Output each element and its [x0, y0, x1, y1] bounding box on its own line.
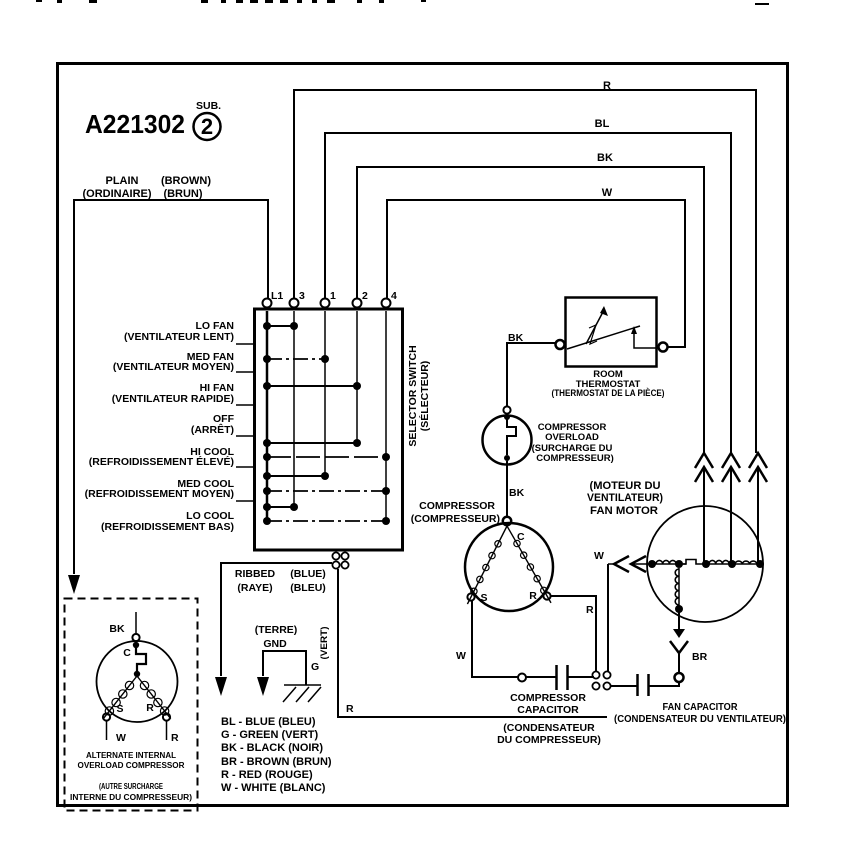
svg-text:W: W — [116, 732, 126, 744]
svg-text:(VENTILATEUR RAPIDE): (VENTILATEUR RAPIDE) — [112, 393, 234, 405]
svg-text:R: R — [529, 590, 537, 602]
svg-text:1: 1 — [330, 290, 336, 302]
svg-text:(CONDENSATEUR: (CONDENSATEUR — [503, 722, 595, 734]
svg-text:SUB.: SUB. — [196, 100, 221, 112]
svg-text:4: 4 — [391, 290, 397, 302]
svg-text:S: S — [116, 703, 123, 715]
svg-text:FAN CAPACITOR: FAN CAPACITOR — [663, 701, 738, 713]
svg-text:3: 3 — [299, 290, 305, 302]
svg-text:(ORDINAIRE): (ORDINAIRE) — [82, 188, 151, 200]
svg-text:(BRUN): (BRUN) — [163, 188, 202, 200]
svg-text:PLAIN: PLAIN — [106, 175, 139, 187]
svg-text:(THERMOSTAT DE LA PIÈCE): (THERMOSTAT DE LA PIÈCE) — [552, 388, 665, 399]
svg-text:(SÉLECTEUR): (SÉLECTEUR) — [418, 361, 431, 432]
svg-text:R - RED (ROUGE): R - RED (ROUGE) — [221, 769, 313, 781]
svg-text:BK: BK — [109, 623, 125, 635]
svg-text:(BROWN): (BROWN) — [161, 175, 211, 187]
svg-text:(TERRE): (TERRE) — [255, 624, 298, 636]
svg-text:W: W — [602, 187, 613, 199]
svg-text:G - GREEN (VERT): G - GREEN (VERT) — [221, 729, 319, 741]
svg-text:R: R — [171, 732, 179, 744]
svg-text:VENTILATEUR): VENTILATEUR) — [587, 492, 663, 504]
svg-text:BK - BLACK (NOIR): BK - BLACK (NOIR) — [221, 742, 323, 754]
svg-text:2: 2 — [362, 290, 368, 302]
svg-text:COMPRESSOR: COMPRESSOR — [419, 500, 495, 512]
svg-text:R: R — [603, 80, 611, 92]
svg-text:BR: BR — [692, 651, 708, 663]
svg-text:ALTERNATE INTERNAL: ALTERNATE INTERNAL — [86, 750, 177, 760]
svg-text:G: G — [311, 661, 319, 673]
svg-text:R: R — [586, 604, 594, 616]
svg-text:W: W — [594, 550, 604, 562]
svg-text:2: 2 — [201, 114, 213, 139]
svg-text:(BLUE): (BLUE) — [290, 568, 326, 580]
svg-text:COMPRESSEUR): COMPRESSEUR) — [536, 453, 614, 464]
svg-text:DU COMPRESSEUR): DU COMPRESSEUR) — [497, 734, 601, 746]
svg-text:BR - BROWN (BRUN): BR - BROWN (BRUN) — [221, 756, 332, 768]
svg-text:C: C — [123, 647, 131, 659]
svg-text:(VERT): (VERT) — [319, 627, 330, 660]
svg-text:BL - BLUE (BLEU): BL - BLUE (BLEU) — [221, 716, 316, 728]
svg-text:R: R — [146, 702, 154, 714]
svg-text:(REFROIDISSEMENT BAS): (REFROIDISSEMENT BAS) — [101, 521, 234, 533]
svg-text:(BLEU): (BLEU) — [290, 582, 326, 594]
svg-text:(MOTEUR DU: (MOTEUR DU — [590, 480, 661, 492]
svg-text:(RAYE): (RAYE) — [237, 582, 272, 594]
svg-text:BK: BK — [509, 487, 525, 499]
svg-text:OVERLOAD: OVERLOAD — [545, 432, 599, 443]
svg-text:(ARRÊT): (ARRÊT) — [191, 423, 234, 436]
svg-text:W - WHITE (BLANC): W - WHITE (BLANC) — [221, 782, 326, 794]
svg-text:(REFROIDISSEMENT ÉLEVÉ): (REFROIDISSEMENT ÉLEVÉ) — [89, 455, 234, 468]
svg-text:INTERNE DU COMPRESSEUR): INTERNE DU COMPRESSEUR) — [70, 792, 192, 802]
svg-text:R: R — [346, 703, 354, 715]
svg-text:S: S — [480, 592, 487, 604]
svg-text:OVERLOAD COMPRESSOR: OVERLOAD COMPRESSOR — [78, 760, 186, 770]
svg-text:COMPRESSOR: COMPRESSOR — [510, 692, 586, 704]
svg-text:(VENTILATEUR LENT): (VENTILATEUR LENT) — [124, 331, 234, 343]
svg-text:A221302: A221302 — [85, 109, 185, 139]
svg-text:L1: L1 — [271, 290, 283, 302]
svg-text:FAN MOTOR: FAN MOTOR — [590, 505, 658, 517]
svg-text:(VENTILATEUR MOYEN): (VENTILATEUR MOYEN) — [113, 361, 234, 373]
svg-text:C: C — [517, 531, 525, 543]
svg-text:SELECTOR SWITCH: SELECTOR SWITCH — [407, 345, 419, 446]
svg-text:(CONDENSATEUR DU VENTILATEUR): (CONDENSATEUR DU VENTILATEUR) — [614, 713, 786, 725]
svg-text:BL: BL — [595, 118, 610, 130]
svg-text:(AUTRE SURCHARGE: (AUTRE SURCHARGE — [99, 781, 163, 791]
svg-text:CAPACITOR: CAPACITOR — [517, 704, 579, 716]
svg-text:(REFROIDISSEMENT MOYEN): (REFROIDISSEMENT MOYEN) — [85, 488, 234, 500]
svg-text:(COMPRESSEUR): (COMPRESSEUR) — [411, 513, 500, 525]
svg-text:GND: GND — [263, 638, 287, 650]
svg-text:W: W — [456, 650, 466, 662]
svg-text:RIBBED: RIBBED — [235, 568, 276, 580]
svg-text:BK: BK — [597, 152, 613, 164]
